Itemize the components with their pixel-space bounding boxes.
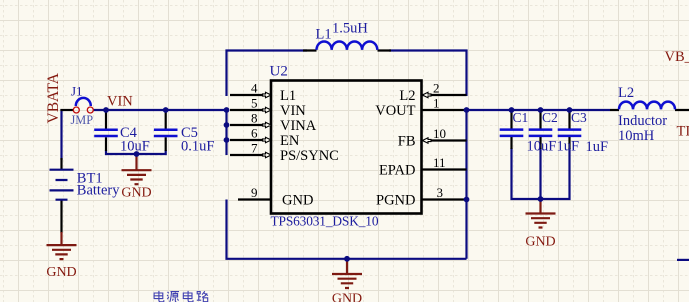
svg-text:11: 11 [433,155,446,170]
svg-text:L2: L2 [399,88,415,104]
svg-text:C2: C2 [542,110,558,125]
svg-text:2: 2 [433,81,440,96]
svg-text:VINA: VINA [280,118,317,134]
svg-text:VB_: VB_ [665,49,689,65]
svg-text:1uF: 1uF [557,139,580,155]
svg-text:3: 3 [437,185,444,200]
svg-text:8: 8 [251,111,258,126]
svg-text:9: 9 [251,185,258,200]
svg-text:GND: GND [46,265,76,280]
svg-text:VOUT: VOUT [375,103,415,119]
svg-text:10uF: 10uF [120,139,150,155]
svg-text:TIN: TIN [677,124,689,140]
svg-text:Inductor: Inductor [618,113,667,129]
svg-text:10: 10 [433,126,446,141]
svg-text:TPS63031_DSK_10: TPS63031_DSK_10 [271,214,379,229]
svg-text:VIN: VIN [280,103,306,119]
svg-text:PS/SYNC: PS/SYNC [280,148,339,164]
svg-text:VIN: VIN [107,94,133,110]
svg-text:JMP: JMP [71,113,94,127]
svg-text:GND: GND [332,292,362,302]
svg-text:U2: U2 [270,64,288,80]
svg-text:L2: L2 [618,85,634,101]
svg-text:GND: GND [121,186,151,201]
svg-text:5: 5 [251,96,258,111]
svg-text:7: 7 [251,141,258,156]
svg-text:L1: L1 [280,88,296,104]
svg-text:L1: L1 [316,27,332,43]
svg-text:J1: J1 [71,84,83,99]
svg-text:1.5uH: 1.5uH [332,21,368,37]
svg-text:Battery: Battery [77,183,120,199]
svg-text:GND: GND [282,192,313,208]
svg-text:10mH: 10mH [618,128,655,144]
svg-text:4: 4 [251,81,258,96]
svg-text:C1: C1 [513,110,529,125]
svg-text:10uF: 10uF [527,139,557,155]
svg-text:1: 1 [433,96,440,111]
svg-text:EN: EN [280,133,300,149]
svg-text:C3: C3 [571,110,587,125]
svg-text:6: 6 [251,126,258,141]
svg-text:0.1uF: 0.1uF [181,139,214,155]
svg-text:GND: GND [525,235,555,250]
svg-text:PGND: PGND [376,192,415,208]
svg-text:EPAD: EPAD [379,162,416,178]
svg-text:VBATA: VBATA [45,72,62,123]
svg-text:1uF: 1uF [586,139,609,155]
svg-text:FB: FB [398,133,416,149]
